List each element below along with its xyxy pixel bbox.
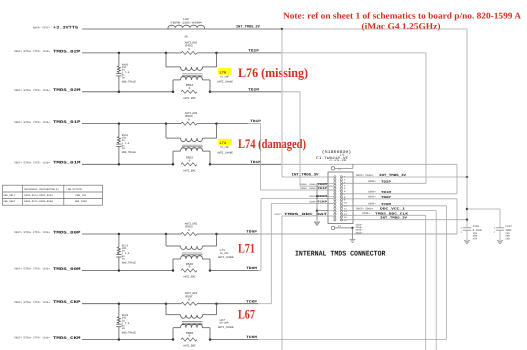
wire TMDS_CKP input — [82, 303, 166, 305]
wire TMDS_02M input — [82, 91, 173, 93]
wire TMDS_DDC_CLK pin row — [341, 214, 426, 216]
svg-text:LOW OPTION: LOW OPTION — [67, 188, 83, 191]
capacitor C652 lead — [466, 220, 468, 228]
wire caps branch — [467, 208, 500, 210]
svg-text:3R: 3R — [184, 35, 188, 38]
wire TMDS_02P input — [82, 52, 166, 54]
svg-text:5867+ 2346+: 5867+ 2346+ — [356, 174, 374, 177]
resistor R587 symbol — [166, 303, 181, 305]
wire TD0P vertical — [456, 199, 458, 234]
node choke bottom-right junction — [209, 163, 212, 166]
svg-text:REFERENCE DESIGNATOR(S): REFERENCE DESIGNATOR(S) — [24, 188, 59, 191]
svg-text:ANTI_EMI: ANTI_EMI — [183, 97, 196, 100]
svg-text:FERR-258-680M: FERR-258-680M — [171, 22, 203, 25]
svg-text:TG_CMF: TG_CMF — [220, 146, 230, 149]
svg-text:TMDS_00P: TMDS_00P — [53, 230, 81, 235]
table stuffing options — [3, 185, 103, 205]
svg-text:4362+: 4362+ — [368, 196, 376, 199]
svg-text:5457+: 5457+ — [274, 213, 282, 216]
svg-text:4360+: 4360+ — [309, 200, 317, 203]
svg-text:4366+: 4366+ — [368, 191, 376, 194]
svg-text:5867+ 5758+ 2757+ 1234+: 5867+ 5758+ 2757+ 1234+ — [14, 89, 50, 92]
wire shield to ground — [352, 228, 354, 239]
wire TD1P output — [217, 123, 249, 125]
wire TD1P to pin — [261, 189, 333, 191]
svg-text:4366+: 4366+ — [368, 180, 376, 183]
wire TCKM output — [210, 339, 258, 341]
svg-text:4366+ 5366+: 4366+ 5366+ — [300, 183, 317, 186]
svg-text:ANTI_CHOKE: ANTI_CHOKE — [217, 151, 233, 154]
wire C652 to ground — [466, 230, 468, 240]
wire TD2M output — [210, 91, 281, 93]
svg-text:L67: L67 — [238, 306, 255, 321]
node TMDS_CKP termination junction — [118, 302, 121, 305]
wire TMDS_DDC_DAT to pin — [282, 215, 333, 217]
wire L62 to INT_TMDS_3V — [168, 28, 205, 30]
resistor R593 symbol — [166, 123, 181, 125]
svg-text:C652: C652 — [473, 225, 480, 228]
wire TD0M to pin — [261, 197, 333, 199]
node TMDS_00P termination junction — [118, 233, 121, 236]
wire pin stubs right — [343, 177, 354, 220]
node choke bottom-left junction — [172, 338, 175, 341]
ground IEC connector shield — [350, 238, 356, 240]
node choke bottom-left junction — [172, 269, 175, 272]
wire TD2M vertical — [299, 92, 301, 186]
wire TD0P output — [217, 233, 259, 235]
svg-text:5867+ 5757+: 5867+ 5757+ — [33, 26, 51, 29]
wire TCKP output — [217, 303, 259, 305]
wire TD0M vertical — [260, 198, 262, 270]
wire termination vertical — [118, 234, 120, 247]
choke L71 top winding — [165, 234, 167, 246]
wire pin stubs left — [328, 177, 334, 216]
svg-text:TMDS_CKP: TMDS_CKP — [53, 300, 81, 305]
svg-text:Note: ref on sheet 1 of schema: Note: ref on sheet 1 of schematics to bo… — [283, 11, 522, 21]
choke L76 highlighted designator — [218, 68, 231, 75]
node TMDS_00M termination junction — [118, 269, 121, 272]
choke L74 top winding — [165, 124, 167, 139]
wire TD1M pin row — [341, 193, 457, 195]
node choke bottom-right junction — [209, 91, 212, 94]
node choke top-left junction — [165, 233, 168, 236]
resistor R405 101 termination — [117, 66, 120, 73]
node choke bottom-left junction — [172, 163, 175, 166]
ground chassis arrow C107 — [497, 240, 503, 244]
svg-text:INTERNAL TMDS CONNECTOR: INTERNAL TMDS CONNECTOR — [295, 250, 386, 258]
svg-text:ANTI_EMI: ANTI_EMI — [183, 345, 196, 348]
connector J12 shield pin top — [331, 167, 334, 170]
node junction 3V bottom — [466, 219, 468, 221]
resistor R592 symbol — [181, 163, 197, 166]
svg-text:CHK_ONLY: CHK_ONLY — [3, 194, 16, 197]
wire TD0M output — [210, 270, 258, 272]
wire TCKP vertical — [270, 204, 272, 304]
svg-text:5867+ 5758+ 2757+ 1234+: 5867+ 5758+ 2757+ 1234+ — [14, 50, 50, 53]
wire INT_TMDS_3V to pin 1 — [282, 176, 333, 178]
svg-text:FBR_1098: FBR_1098 — [75, 200, 88, 203]
choke L71 bottom winding — [172, 259, 174, 271]
resistor R583 symbol — [166, 233, 181, 235]
node choke bottom-right junction — [209, 338, 212, 341]
ground chassis arrow C652 — [464, 240, 470, 244]
svg-text:TCKP: TCKP — [317, 200, 327, 203]
connector J12 body — [328, 172, 353, 224]
node TMDS_02P termination junction — [118, 52, 121, 55]
svg-text:5867+ 5758+ 2757+ 1234+: 5867+ 5758+ 2757+ 1234+ — [14, 231, 50, 234]
wire DDC_VCC_1 vertical off-page — [435, 211, 437, 350]
node TMDS_CKM termination junction — [118, 338, 121, 341]
wire TD1P vertical — [260, 124, 262, 190]
svg-text:TMDS_CKM: TMDS_CKM — [53, 336, 81, 341]
node choke bottom-left junction — [172, 91, 175, 94]
svg-text:TMDS_01P: TMDS_01P — [53, 120, 81, 125]
svg-text:5867+ 5758+ 2757+ 1234+: 5867+ 5758+ 2757+ 1234+ — [14, 121, 50, 124]
svg-text:DDC_VCC_1: DDC_VCC_1 — [380, 208, 405, 211]
capacitor termination plates — [116, 72, 121, 74]
svg-text:ANTI_EMI: ANTI_EMI — [183, 170, 196, 173]
node choke top-left junction — [165, 122, 168, 125]
choke L67 bottom winding — [172, 328, 174, 340]
svg-text:TD0M: TD0M — [317, 195, 327, 198]
node choke top-right junction — [215, 122, 218, 125]
node choke bottom-right junction — [209, 269, 212, 272]
svg-text:TMDS_00M: TMDS_00M — [53, 267, 81, 272]
resistor R573 101 termination — [117, 247, 120, 254]
svg-text:GND_TRALE: GND_TRALE — [122, 262, 136, 265]
wire TCKM vertical — [446, 206, 448, 340]
capacitor C107 symbol — [496, 227, 504, 229]
svg-text:L76 (missing): L76 (missing) — [238, 65, 308, 80]
node choke top-left junction — [165, 302, 168, 305]
choke L76 core — [182, 73, 203, 75]
wire DDC_VCC_1 pin row — [341, 210, 436, 212]
svg-text:TCKM: TCKM — [381, 203, 391, 206]
svg-text:ANTI_CHOKE: ANTI_CHOKE — [217, 81, 233, 84]
choke L74 core — [182, 144, 203, 146]
svg-text:4362+: 4362+ — [356, 231, 364, 234]
svg-text:5867+ 5758+ 2757+ 1234+: 5867+ 5758+ 2757+ 1234+ — [14, 162, 50, 165]
wire TMDS_DDC_CLK vertical off-page — [425, 215, 427, 350]
capacitor C652 symbol — [463, 227, 471, 229]
svg-text:4366+ 5366+: 4366+ 5366+ — [300, 187, 317, 190]
node shield junction — [316, 195, 318, 197]
wire TMDS_CKM input — [82, 339, 173, 341]
wire TMDS_01M input — [82, 163, 173, 165]
ground shield pins bus — [316, 184, 318, 222]
svg-text:5867+ 5758+ 2757+ 1234+: 5867+ 5758+ 2757+ 1234+ — [14, 301, 50, 304]
node TMDS_02M termination junction — [118, 91, 121, 94]
wire +3.3VTTS to L62 — [82, 28, 168, 30]
svg-text:TMDS_DDC_DAT: TMDS_DDC_DAT — [284, 212, 327, 216]
resistor R550 symbol — [181, 338, 197, 341]
resistor R594 symbol — [181, 90, 197, 93]
svg-text:INT_TMDS_3V: INT_TMDS_3V — [379, 173, 406, 177]
wire C107 to ground — [499, 230, 501, 240]
svg-text:L74 (damaged): L74 (damaged) — [238, 136, 306, 151]
svg-text:4360+: 4360+ — [368, 203, 376, 206]
svg-text:5%: 5% — [122, 327, 126, 330]
wire INT_TMDS_3V vertical to connector — [281, 29, 283, 177]
node TMDS_01M termination junction — [118, 163, 121, 166]
svg-text:ANTI_CHOKE: ANTI_CHOKE — [218, 326, 234, 329]
svg-text:C107: C107 — [505, 225, 512, 228]
wire TD1M output — [210, 163, 281, 165]
wire TD0P pin row — [341, 198, 457, 200]
node choke top-right junction — [215, 302, 218, 305]
svg-text:CER: CER — [505, 237, 510, 240]
resistor R559 101 termination — [117, 317, 120, 323]
svg-text:CHK_GRAY: CHK_GRAY — [3, 200, 16, 203]
connector J12 pin circles — [334, 176, 343, 221]
svg-text:ANTI_EMI: ANTI_EMI — [183, 276, 196, 279]
svg-text:R503,R575,R583,R560: R503,R575,R583,R560 — [24, 200, 53, 203]
svg-text:+3.3VTTS: +3.3VTTS — [53, 26, 79, 31]
wire shield bottom — [335, 227, 353, 229]
svg-text:ANTI_CHOKE: ANTI_CHOKE — [218, 256, 234, 259]
svg-text:TD1M: TD1M — [381, 191, 391, 194]
resistor R591 101 termination — [117, 137, 120, 144]
connector J12 pin numbers — [344, 176, 347, 222]
resistor R403 symbol — [166, 52, 181, 54]
svg-text:GND_TRALE: GND_TRALE — [122, 151, 136, 154]
wire TMDS_00P input — [82, 233, 166, 235]
wire shield top — [335, 167, 353, 169]
node choke top-right junction — [215, 52, 218, 55]
svg-text:2365+: 2365+ — [362, 212, 370, 215]
node shield junction 2 — [316, 210, 318, 212]
svg-text:GND_TRALE: GND_TRALE — [122, 331, 136, 334]
svg-text:(51866039): (51866039) — [322, 150, 352, 155]
node junction 3V right — [466, 176, 468, 178]
svg-text:TMDS_DDC_CLK: TMDS_DDC_CLK — [375, 212, 408, 215]
node junction caps branch — [466, 208, 468, 210]
choke L76 top winding — [165, 53, 167, 67]
svg-text:5%: 5% — [122, 147, 126, 150]
svg-text:TMDS_01M: TMDS_01M — [53, 161, 81, 166]
node choke top-left junction — [165, 52, 168, 55]
wire INT_TMDS_3V right vertical rail — [466, 29, 468, 220]
wire INT_TMDS_3V right pin row — [341, 176, 467, 178]
svg-text:TMDS_02P: TMDS_02P — [53, 49, 81, 54]
wire termination vertical — [118, 53, 120, 66]
resistor R548 symbol — [181, 269, 197, 272]
choke L76 bottom winding — [172, 80, 174, 92]
wire TD2P output — [217, 52, 282, 54]
node INT_TMDS_3V junction — [281, 28, 284, 31]
svg-text:INT_TMDS_3V: INT_TMDS_3V — [292, 173, 320, 178]
svg-text:FBR_743: FBR_743 — [76, 194, 87, 197]
wire termination vertical — [118, 124, 120, 137]
svg-text:TG_CMF: TG_CMF — [220, 252, 230, 255]
wire TD2P vertical — [425, 53, 427, 183]
svg-text:TD1P: TD1P — [317, 187, 327, 190]
choke L67 core — [182, 321, 203, 323]
choke L71 core — [182, 252, 203, 254]
wire TMDS_00M input — [82, 270, 173, 272]
choke L74 highlighted designator — [218, 139, 231, 146]
svg-text:TMDS_02M: TMDS_02M — [53, 88, 81, 93]
svg-text:5867+ 5066+: 5867+ 5066+ — [356, 208, 374, 211]
svg-text:5867+ 5758+ 2757+ 1234+: 5867+ 5758+ 2757+ 1234+ — [14, 268, 50, 271]
svg-text:5867+ 5758+ 2757+ 1234+: 5867+ 5758+ 2757+ 1234+ — [14, 337, 50, 340]
wire TCKP to pin — [271, 203, 332, 205]
svg-text:L71: L71 — [238, 241, 255, 256]
choke L74 bottom winding — [172, 151, 174, 164]
svg-text:GND_TRALE: GND_TRALE — [122, 81, 136, 84]
svg-text:R403,R573,R591,R594: R403,R573,R591,R594 — [24, 194, 53, 197]
ground chassis arrow left pins — [314, 222, 320, 226]
ferrite bead L62 symbol — [168, 25, 205, 29]
wire TMDS_01P input — [82, 123, 166, 125]
svg-text:C-25-2R: C-25-2R — [329, 159, 347, 162]
svg-text:5%: 5% — [122, 76, 126, 79]
wire INT_TMDS_3V bottom pin row — [341, 219, 467, 221]
svg-text:TD0P: TD0P — [381, 196, 391, 199]
svg-text:TD2P: TD2P — [381, 180, 391, 183]
svg-text:DR-30M: DR-30M — [220, 322, 230, 325]
choke L67 top winding — [165, 304, 167, 315]
wire termination vertical — [118, 304, 120, 317]
capacitor C107 lead — [499, 209, 501, 228]
svg-text:TG_CMF: TG_CMF — [220, 76, 230, 79]
connector J12 shield pin bottom — [331, 226, 334, 229]
wire TCKM pin row — [341, 205, 446, 207]
svg-text:X7R: X7R — [473, 237, 478, 240]
svg-text:INT_TMDS_3V: INT_TMDS_3V — [380, 217, 407, 220]
wire INT_TMDS_3V to right rail — [282, 28, 467, 30]
node choke top-right junction — [215, 233, 218, 236]
svg-text:5%: 5% — [122, 257, 126, 260]
capacitor termination plates — [116, 254, 121, 256]
node shield bottom junction — [351, 227, 353, 229]
capacitor termination plates — [116, 323, 121, 325]
wire TMDS_DDC_DAT vertical off-page — [281, 216, 283, 350]
wire TD2P pin row — [341, 182, 426, 184]
svg-text:INT_TMDS_3V: INT_TMDS_3V — [236, 24, 261, 29]
svg-text:4362+: 4362+ — [309, 195, 317, 198]
wire TD2M to pin — [300, 185, 333, 187]
capacitor termination plates — [116, 143, 121, 145]
node TMDS_01P termination junction — [118, 122, 121, 125]
wire TD1M vertical — [456, 164, 458, 194]
